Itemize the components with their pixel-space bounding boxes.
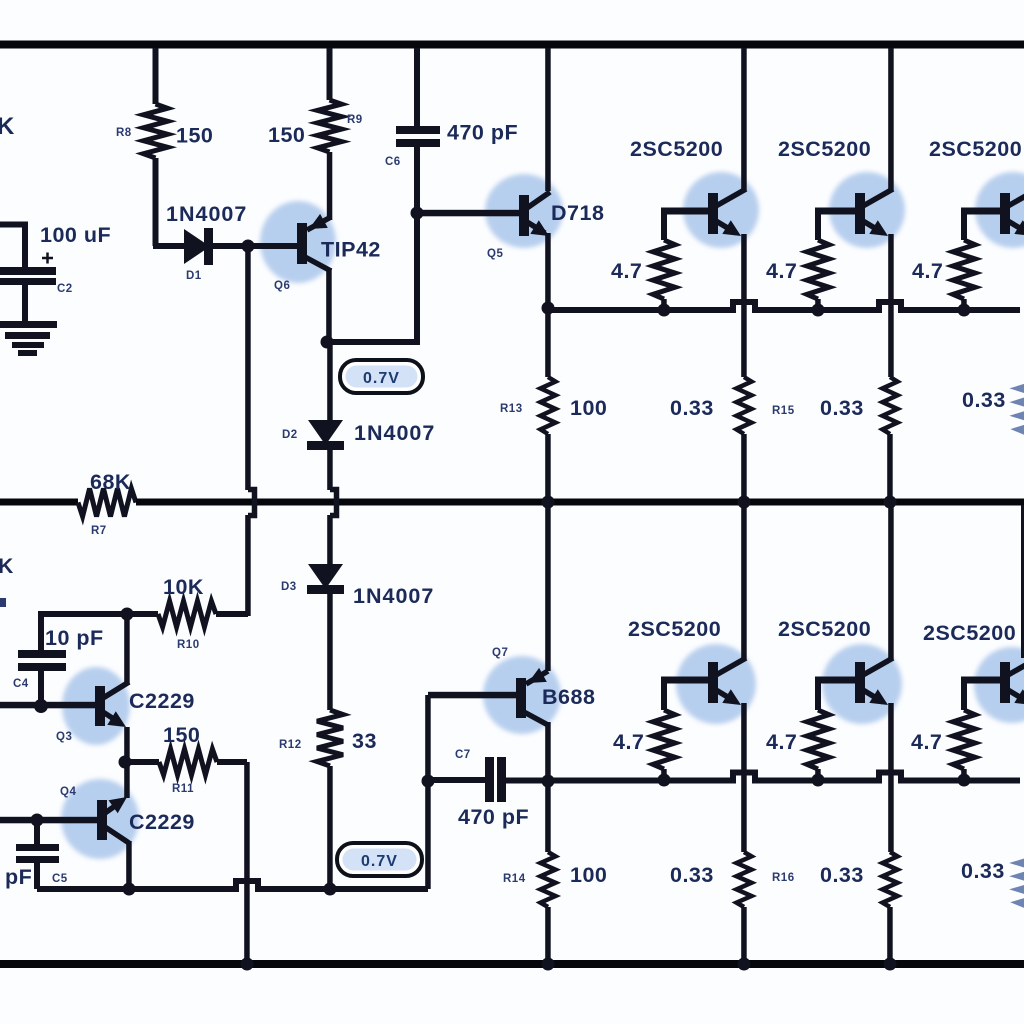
svg-text:pF: pF	[5, 865, 32, 889]
transistor halo Q5	[485, 174, 563, 248]
resistor 0.33 upper#1	[737, 377, 752, 434]
capacitor C7 470pF	[485, 757, 506, 802]
wire D718 base	[417, 210, 519, 217]
label R7	[91, 525, 107, 537]
svg-text:D3: D3	[281, 581, 297, 593]
wire to capacitor C2	[0, 222, 28, 228]
transistor halo 2SC5200 upper 3	[975, 172, 1024, 248]
label 150 for R9	[268, 123, 305, 147]
wire Q6 node to D2	[327, 342, 333, 420]
wire collector from top rail upper#1	[741, 48, 747, 190]
svg-text:K: K	[0, 113, 15, 140]
label 0.33 lower 1	[670, 863, 714, 887]
transistor Q6 TIP42 bar	[297, 223, 307, 264]
diode D3 1N4007	[307, 564, 344, 594]
svg-text:4.7: 4.7	[766, 259, 797, 283]
label 10 pF	[45, 626, 104, 650]
transistor Q4 emitter	[105, 797, 127, 813]
label 100 for R14	[570, 863, 607, 887]
resistor R10 10K	[158, 601, 216, 627]
svg-text:R7: R7	[91, 525, 107, 537]
label 2SC5200 upper 1	[630, 137, 723, 161]
label D3	[281, 581, 297, 593]
label 4.7 lower 2	[766, 730, 797, 754]
label 470 pF for C7	[458, 805, 529, 829]
node D1-TIP42 base	[242, 240, 255, 253]
transistor 2SC5200 emitter lower#1	[716, 689, 741, 705]
svg-text:0.33: 0.33	[962, 388, 1006, 412]
transistor 2SC5200 emitter lower#2	[863, 689, 888, 705]
resistor R13 100	[541, 377, 556, 434]
svg-text:C2: C2	[57, 283, 73, 295]
label B688	[542, 685, 595, 709]
wire Q3 base	[0, 702, 95, 709]
node Q7 collector junction	[542, 775, 555, 788]
node 0.33 lower#2 on bottom rail	[884, 958, 897, 971]
resistor 0.33 lower#1	[737, 852, 752, 907]
wire Q4 collector down	[126, 841, 132, 889]
wire bump upper rail x890	[873, 302, 907, 310]
node 4.7 on rail upper#1	[658, 304, 671, 317]
wire R8 bottom lead	[153, 158, 159, 246]
label R9	[347, 114, 363, 126]
diode D2 1N4007	[307, 420, 344, 450]
wire R13 top lead	[545, 308, 551, 377]
node 4.7 on rail lower#3	[958, 774, 971, 787]
transistor Q5 D718 bar	[519, 195, 529, 236]
wire D2 to D3 lower segment	[327, 515, 333, 564]
resistor 4.7 base upper#3	[953, 240, 975, 299]
wire 2SC5200 base lower#2	[815, 677, 855, 684]
wire C6 top lead	[414, 48, 420, 126]
resistor 0.33 upper#3 partial	[1017, 377, 1024, 434]
label 2SC5200 lower 1	[628, 617, 721, 641]
resistor 0.33 lower#2	[883, 852, 898, 907]
lower-left bus wire segment	[263, 886, 428, 892]
label D1	[186, 270, 202, 282]
svg-text:2SC5200: 2SC5200	[628, 617, 721, 641]
label 10K	[163, 575, 204, 599]
svg-text:100 uF: 100 uF	[40, 223, 111, 247]
label D718	[551, 201, 604, 225]
wire Q7 collector down	[545, 722, 551, 781]
transistor Q7 collector	[524, 712, 548, 725]
wire jog over mid rail at x248	[248, 490, 255, 516]
svg-text:100: 100	[570, 396, 607, 420]
label 100 for R13	[570, 396, 607, 420]
svg-text:R11: R11	[172, 783, 194, 795]
svg-text:R10: R10	[177, 639, 200, 651]
wire base down to 4.7 lower#3	[961, 680, 967, 710]
label R11	[172, 783, 194, 795]
wire 0.33 lower#1 bottom lead	[741, 907, 747, 962]
wire bump lower rail x744	[727, 773, 761, 781]
transistor halo 2SC5200 upper 2	[829, 172, 905, 248]
label C4	[13, 678, 29, 690]
wire base down to 4.7 upper#1	[661, 211, 667, 240]
label R15	[772, 405, 795, 417]
label 33 for R12	[352, 729, 377, 753]
node 4.7 on rail lower#1	[658, 774, 671, 787]
svg-text:100: 100	[570, 863, 607, 887]
node R13 on mid rail	[542, 496, 555, 509]
svg-text:1N4007: 1N4007	[354, 421, 435, 445]
node R11 left junction	[119, 756, 132, 769]
wire 2SC5200 base upper#1	[661, 208, 708, 215]
upper driver rail segment	[548, 307, 728, 313]
label 0.33 lower 2	[820, 863, 864, 887]
node Q4 base-C5 junction	[31, 814, 44, 827]
svg-text:D718: D718	[551, 201, 604, 225]
voltage label 0.7V upper	[340, 360, 423, 393]
label C7	[455, 749, 471, 761]
lower driver rail segment	[506, 778, 728, 784]
wire 2SC5200 base lower#3	[961, 677, 1000, 684]
transistor Q3 collector	[103, 682, 129, 698]
svg-text:0.33: 0.33	[670, 863, 714, 887]
svg-text:C7: C7	[455, 749, 471, 761]
wire R11 left lead	[125, 759, 159, 765]
svg-text:10K: 10K	[163, 575, 204, 599]
transistor Q7 emitter	[526, 668, 548, 684]
wire emitter down upper#2	[888, 234, 894, 377]
wire C2 bottom lead	[22, 285, 28, 322]
svg-text:TIP42: TIP42	[321, 238, 381, 262]
wire Q7 base	[428, 692, 516, 699]
label 4.7 lower 3	[911, 730, 942, 754]
svg-text:150: 150	[163, 723, 200, 747]
svg-text:0.7V: 0.7V	[363, 370, 400, 387]
label 0.33 lower 3	[961, 859, 1005, 883]
transistor halo 2SC5200 lower 1	[676, 644, 756, 724]
transistor 2SC5200 bar lower#3	[1000, 662, 1010, 703]
transistor halo Q4	[61, 779, 139, 859]
label R12	[279, 739, 302, 751]
label 470 pF for C6	[447, 121, 518, 145]
label 1N4007 for D1	[166, 202, 247, 226]
lower driver rail segment	[906, 778, 1020, 784]
partial label fragment	[0, 598, 6, 607]
upper driver rail segment	[906, 307, 1020, 313]
label 4.7 upper 3	[912, 259, 943, 283]
resistor 4.7 base lower#2	[807, 710, 829, 769]
wire C4 bottom lead	[38, 671, 44, 705]
wire 4.7 to rail upper#3	[961, 299, 967, 310]
transistor halo Q6	[260, 201, 336, 283]
label R14	[503, 873, 526, 885]
label pF partial for C5	[5, 865, 32, 889]
resistor R8 150	[144, 104, 168, 158]
wire D718 collector from rail	[545, 48, 551, 191]
label 2SC5200 upper 3	[929, 137, 1022, 161]
capacitor C5	[16, 844, 59, 863]
mid output rail left segment	[0, 499, 78, 506]
partial label K mid-left	[0, 555, 14, 578]
resistor R12 33	[317, 710, 343, 766]
wire bump lower rail x890	[873, 773, 907, 781]
wire C5 bottom lead	[34, 863, 40, 889]
wire node to TIP42 base	[248, 243, 297, 249]
label Q4	[60, 786, 76, 798]
svg-text:2SC5200: 2SC5200	[929, 137, 1022, 161]
transistor 2SC5200 collector upper#1	[716, 189, 746, 206]
wire R11 right down to bottom rail	[244, 762, 250, 962]
label Q6	[274, 280, 290, 292]
resistor 4.7 base upper#2	[807, 240, 829, 299]
wire R8 top lead	[153, 48, 159, 104]
svg-text:C2229: C2229	[129, 689, 195, 713]
lower driver rail segment	[760, 778, 874, 784]
svg-text:1N4007: 1N4007	[166, 202, 247, 226]
transistor 2SC5200 bar upper#2	[855, 193, 865, 234]
wire R14 bottom lead	[545, 907, 551, 962]
wire 0.33 upper#2 bottom lead	[887, 434, 893, 500]
label 0.33 upper 1	[670, 396, 714, 420]
wire jog over mid rail at x330	[330, 490, 337, 516]
wire collector from mid rail lower#1	[741, 505, 747, 659]
label 2SC5200 upper 2	[778, 137, 871, 161]
wire R12 bottom lead	[327, 766, 333, 889]
node C4 on Q3 base	[34, 699, 48, 713]
svg-text:C2229: C2229	[129, 810, 195, 834]
svg-text:470 pF: 470 pF	[447, 121, 518, 145]
resistor R14 100	[541, 852, 556, 907]
node Q5 emitter junction	[542, 302, 555, 315]
upper driver rail segment	[760, 307, 874, 313]
wire D1 node down lower segment	[245, 515, 251, 616]
svg-text:150: 150	[176, 124, 213, 148]
wire Q3 collector up	[124, 614, 130, 684]
bottom supply rail	[0, 960, 1024, 968]
wire Q3 emitter down	[124, 727, 130, 762]
transistor 2SC5200 collector lower#2	[863, 658, 893, 675]
wire collector lower third sliver	[1021, 505, 1024, 658]
transistor 2SC5200 emitter upper#2	[863, 220, 888, 236]
svg-text:C4: C4	[13, 678, 29, 690]
label R10	[177, 639, 200, 651]
node 4.7 on rail lower#2	[812, 774, 825, 787]
wire 2SC5200 base upper#3	[961, 208, 1000, 215]
wire Q6 collector to C6 bottom	[327, 339, 420, 345]
node 0.33 upper#2 on mid rail	[884, 496, 897, 509]
svg-text:4.7: 4.7	[766, 730, 797, 754]
node 0.33 lower#1 on bottom rail	[738, 958, 751, 971]
wire bump upper rail x744	[727, 302, 761, 310]
label C6	[385, 156, 401, 168]
wire D2 to D3 upper segment	[327, 450, 333, 490]
transistor Q4 C2229 bar	[97, 800, 107, 840]
mid output rail right segment	[136, 499, 1024, 506]
resistor 0.33 upper#2	[883, 377, 898, 434]
node 4.7 on rail upper#2	[812, 304, 825, 317]
node 4.7 on rail upper#3	[958, 304, 971, 317]
wire collector from mid rail lower#2	[888, 505, 894, 659]
svg-text:0.7V: 0.7V	[361, 853, 398, 870]
label 100 uF	[40, 223, 111, 247]
node R12 on bus	[324, 883, 337, 896]
svg-text:2SC5200: 2SC5200	[778, 137, 871, 161]
svg-text:R12: R12	[279, 739, 302, 751]
transistor Q6 emitter	[307, 214, 331, 230]
label C2229 for Q4	[129, 810, 195, 834]
wire bump lower-left bus x247	[230, 881, 264, 889]
svg-text:Q4: Q4	[60, 786, 76, 798]
capacitor C2 plus sign	[42, 253, 53, 264]
wire R11 right lead	[217, 759, 247, 765]
svg-text:68K: 68K	[90, 470, 131, 494]
wire R13 bottom lead	[545, 434, 551, 500]
label 1N4007 for D3	[353, 584, 434, 608]
svg-text:2SC5200: 2SC5200	[630, 137, 723, 161]
svg-text:D1: D1	[186, 270, 202, 282]
wire 4.7 to rail upper#1	[661, 299, 667, 310]
wire R10 right lead	[216, 611, 248, 617]
wire 4.7 to rail lower#3	[961, 769, 967, 780]
ground symbol	[0, 321, 57, 356]
svg-text:R9: R9	[347, 114, 363, 126]
wire 4.7 to rail lower#2	[815, 769, 821, 780]
wire Q6 collector down	[326, 268, 332, 342]
wire Q7 base down	[425, 695, 431, 889]
wire R10 left lead	[127, 611, 158, 617]
transistor Q6 collector	[305, 257, 331, 271]
resistor 4.7 base lower#3	[953, 710, 975, 769]
svg-text:33: 33	[352, 729, 377, 753]
resistor R7 68K	[78, 489, 136, 517]
capacitor C2 100uF	[0, 267, 56, 285]
node Q4 collector on bus	[123, 883, 136, 896]
label 68K	[90, 470, 131, 494]
svg-text:Q3: Q3	[56, 731, 72, 743]
transistor halo Q3	[62, 667, 130, 745]
svg-text:D2: D2	[282, 429, 298, 441]
wire collector from top rail upper#2	[888, 48, 894, 190]
label Q5	[487, 248, 503, 260]
wire Q7 emitter from mid rail	[545, 505, 551, 671]
resistor 4.7 base lower#1	[653, 710, 675, 769]
svg-text:10 pF: 10 pF	[45, 626, 104, 650]
transistor halo 2SC5200 lower 2	[822, 644, 902, 724]
transistor Q3 emitter	[103, 711, 126, 727]
transistor Q3 C2229 bar	[95, 686, 105, 726]
svg-text:R14: R14	[503, 873, 526, 885]
diode D1 1N4007	[184, 228, 213, 265]
transistor 2SC5200 bar upper#1	[708, 193, 718, 234]
svg-text:R13: R13	[500, 403, 523, 415]
wire R9 bottom lead	[327, 152, 333, 220]
svg-text:150: 150	[268, 123, 305, 147]
svg-text:C6: C6	[385, 156, 401, 168]
transistor halo 2SC5200 upper 1	[683, 172, 759, 248]
svg-text:2SC5200: 2SC5200	[778, 617, 871, 641]
svg-text:Q7: Q7	[492, 647, 508, 659]
wire Q5 emitter down	[545, 233, 551, 310]
label TIP42	[321, 238, 381, 262]
node R14 on bottom rail	[542, 958, 555, 971]
label 150 for R11	[163, 723, 200, 747]
transistor halo Q7	[483, 656, 561, 734]
svg-text:C5: C5	[52, 873, 68, 885]
wire base down to 4.7 upper#2	[815, 211, 821, 240]
resistor 4.7 base upper#1	[653, 240, 675, 299]
svg-text:Q6: Q6	[274, 280, 290, 292]
label R13	[500, 403, 523, 415]
node R10 left junction	[121, 608, 134, 621]
label 4.7 upper 1	[611, 259, 642, 283]
wire Q4 base	[0, 817, 97, 824]
transistor 2SC5200 collector lower#3	[1008, 658, 1024, 675]
label Q7	[492, 647, 508, 659]
transistor 2SC5200 collector upper#2	[863, 189, 893, 206]
svg-text:R16: R16	[772, 872, 795, 884]
wire C5 top lead	[34, 820, 40, 844]
transistor Q4 collector	[105, 827, 129, 843]
svg-text:1K: 1K	[0, 555, 14, 578]
wire R14 top lead	[545, 781, 551, 852]
transistor 2SC5200 emitter lower#3	[1008, 689, 1024, 705]
svg-text:470 pF: 470 pF	[458, 805, 529, 829]
svg-text:0.33: 0.33	[820, 396, 864, 420]
wire R8 to D1	[153, 243, 184, 249]
svg-text:0.33: 0.33	[961, 859, 1005, 883]
wire 4.7 to rail upper#2	[815, 299, 821, 310]
top supply rail	[0, 41, 1024, 49]
svg-text:4.7: 4.7	[611, 259, 642, 283]
lower-left bus wire	[37, 886, 231, 892]
label 150 for R8	[176, 124, 213, 148]
transistor 2SC5200 collector upper#3	[1008, 189, 1024, 206]
transistor halo 2SC5200 lower 3	[974, 647, 1024, 723]
svg-text:R15: R15	[772, 405, 795, 417]
node 0.33 upper#1 on mid rail	[738, 496, 751, 509]
transistor 2SC5200 bar lower#1	[708, 662, 718, 703]
transistor Q5 collector	[527, 192, 550, 208]
wire D1 to node	[213, 243, 248, 249]
svg-text:B688: B688	[542, 685, 595, 709]
wire Q4 emitter up	[124, 762, 130, 798]
transistor Q7 B688 bar	[516, 678, 526, 718]
wire C2 top lead	[22, 224, 28, 268]
svg-text:4.7: 4.7	[912, 259, 943, 283]
node Q7 base-C7 junction	[422, 775, 435, 788]
label 1N4007 for D2	[354, 421, 435, 445]
svg-text:1N4007: 1N4007	[353, 584, 434, 608]
wire R9 top lead	[327, 48, 333, 100]
wire 2SC5200 base upper#2	[815, 208, 855, 215]
capacitor C6 470pF	[396, 126, 440, 147]
wire C4 branch horizontal	[41, 611, 127, 617]
capacitor C4 10pF	[18, 650, 66, 671]
resistor 0.33 lower#3 partial	[1017, 852, 1024, 907]
lower driver rail segment	[428, 777, 485, 783]
label R16	[772, 872, 795, 884]
wire emitter down upper#1	[741, 234, 747, 377]
wire D1 node down upper segment	[245, 246, 251, 490]
wire 4.7 to rail lower#1	[661, 769, 667, 780]
wire 2SC5200 base lower#1	[661, 677, 708, 684]
transistor 2SC5200 emitter upper#3	[1008, 220, 1024, 236]
label 4.7 lower 1	[613, 730, 644, 754]
svg-text:0.33: 0.33	[670, 396, 714, 420]
svg-text:0.33: 0.33	[820, 863, 864, 887]
wire 0.33 lower#2 bottom lead	[887, 907, 893, 962]
svg-text:R8: R8	[116, 127, 132, 139]
label 0.33 upper 3	[962, 388, 1006, 412]
transistor 2SC5200 bar lower#2	[855, 662, 865, 703]
node x247 on bottom rail	[241, 958, 254, 971]
transistor 2SC5200 collector lower#1	[716, 658, 746, 675]
label 2SC5200 lower 3	[923, 621, 1016, 645]
